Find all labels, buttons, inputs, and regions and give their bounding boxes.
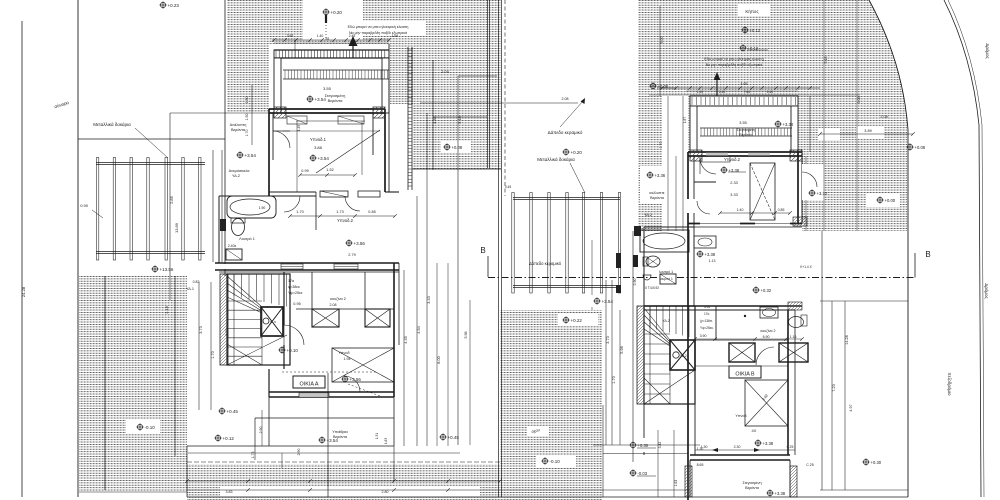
svg-text:καλλυπτε: καλλυπτε [649, 191, 665, 195]
svg-text:3.65: 3.65 [287, 34, 294, 38]
svg-text:+0.30: +0.30 [871, 460, 882, 465]
svg-text:Δάπεδο κεραμικό: Δάπεδο κεραμικό [548, 129, 583, 135]
svg-text:+0.32: +0.32 [761, 288, 772, 293]
svg-text:Εδώ μπορεί να μπει ηλεκτρική κ: Εδώ μπορεί να μπει ηλεκτρική κλειστη [348, 25, 409, 29]
svg-text:+0.20: +0.20 [331, 10, 343, 15]
svg-text:Βεράντα: Βεράντα [328, 98, 344, 103]
svg-text:5.98: 5.98 [620, 346, 624, 353]
svg-text:Υπαίθρια: Υπαίθρια [332, 430, 348, 434]
svg-text:+0.45: +0.45 [227, 409, 239, 414]
svg-text:0.83: 0.83 [193, 280, 200, 284]
svg-text:Δάπεδο κεραμικό: Δάπεδο κεραμικό [529, 261, 562, 266]
svg-text:Βεράντα: Βεράντα [745, 486, 760, 490]
svg-text:C.25: C.25 [806, 463, 813, 467]
svg-text:0.45: 0.45 [505, 185, 511, 189]
svg-text:2.40x: 2.40x [228, 244, 237, 248]
svg-text:1.73: 1.73 [336, 210, 343, 214]
svg-text:+0.12: +0.12 [223, 436, 235, 441]
svg-text:Υψ=25εκ.: Υψ=25εκ. [700, 326, 714, 330]
svg-text:1.70: 1.70 [245, 130, 249, 137]
svg-text:1.40: 1.40 [697, 90, 703, 94]
svg-text:+3.38: +3.38 [775, 491, 786, 496]
svg-text:1.65: 1.65 [767, 90, 773, 94]
svg-text:+3.54: +3.54 [602, 299, 614, 304]
svg-text:3.73: 3.73 [225, 328, 229, 335]
svg-text:Υπνοδ.2: Υπνοδ.2 [724, 157, 741, 162]
svg-text:Χ Τ4.Β.92: Χ Τ4.Β.92 [645, 286, 659, 290]
svg-text:5.98: 5.98 [464, 332, 468, 339]
svg-text:ΥΔ.1: ΥΔ.1 [186, 287, 194, 291]
svg-text:+0.00: +0.00 [885, 198, 896, 203]
svg-text:1.40: 1.40 [737, 208, 744, 212]
svg-text:7.23: 7.23 [832, 384, 836, 391]
svg-text:2.08: 2.08 [330, 303, 337, 307]
svg-text:Υπνοδ: Υπνοδ [735, 414, 746, 418]
svg-text:17α: 17α [704, 312, 710, 316]
svg-text:1.50: 1.50 [245, 114, 249, 121]
svg-text:Να μην παραβρ/Μη παξίδι εξωπρι: Να μην παραβρ/Μη παξίδι εξωπρικά [706, 63, 763, 67]
svg-text:2.80: 2.80 [382, 490, 389, 494]
svg-text:+0.23: +0.23 [168, 3, 180, 8]
svg-text:0.99: 0.99 [301, 169, 308, 173]
svg-text:+0.30: +0.30 [638, 443, 649, 448]
svg-text:Κ+1.4 Χ: Κ+1.4 Χ [800, 265, 812, 269]
svg-text:0.95: 0.95 [293, 302, 300, 306]
svg-text:λουτρό 1: λουτρό 1 [659, 270, 673, 274]
svg-text:+0.22: +0.22 [571, 318, 583, 323]
svg-text:Βεράντα: Βεράντα [650, 196, 665, 200]
svg-text:ΥΔ.2: ΥΔ.2 [644, 213, 652, 217]
svg-text:2.85: 2.85 [169, 195, 174, 204]
svg-text:B: B [480, 246, 485, 255]
svg-text:3.89: 3.89 [864, 129, 871, 133]
svg-text:Κήπος: Κήπος [745, 8, 759, 14]
svg-text:1.13: 1.13 [709, 259, 716, 263]
svg-text:3.33: 3.33 [730, 193, 737, 197]
svg-text:2.79: 2.79 [348, 253, 355, 257]
svg-text:1.63: 1.63 [674, 480, 678, 487]
svg-text:Εδώ μπορεί να μπει ηλεκτρική κ: Εδώ μπορεί να μπει ηλεκτρική κλειστη [704, 57, 763, 61]
svg-text:0.90: 0.90 [80, 203, 89, 208]
svg-text:κουζίνα 2: κουζίνα 2 [330, 297, 346, 301]
svg-text:3.18: 3.18 [164, 305, 169, 314]
svg-text:+3.54: +3.54 [245, 153, 257, 158]
svg-text:4.97: 4.97 [849, 404, 853, 411]
svg-text:φ=38εκ: φ=38εκ [288, 285, 300, 289]
svg-text:+0.12: +0.12 [750, 28, 761, 33]
svg-text:1.70: 1.70 [659, 142, 663, 149]
svg-text:3.18: 3.18 [457, 115, 462, 124]
svg-text:Βεράντα: Βεράντα [231, 128, 246, 132]
svg-text:Υπνοδ.1: Υπνοδ.1 [310, 137, 327, 142]
svg-text:Στεγασμένη: Στεγασμένη [742, 481, 761, 485]
svg-text:(γ=13θπ.: (γ=13θπ. [700, 319, 713, 323]
svg-text:+13.56: +13.56 [160, 267, 174, 272]
svg-text:3.83: 3.83 [226, 490, 233, 494]
svg-text:κουμπό 1: κουμπό 1 [659, 277, 673, 281]
svg-text:Ανεμόσκαλα: Ανεμόσκαλα [229, 169, 251, 173]
svg-text:-0.10: -0.10 [145, 425, 156, 430]
svg-text:1.90: 1.90 [259, 206, 266, 210]
svg-text:1.30: 1.30 [697, 447, 704, 451]
svg-text:5.00: 5.00 [660, 37, 664, 44]
svg-text:2.90: 2.90 [259, 427, 263, 434]
svg-text:1.80: 1.80 [245, 97, 249, 104]
svg-text:24.28: 24.28 [21, 286, 26, 297]
svg-text:4.45: 4.45 [404, 336, 408, 343]
svg-text:ΟΙΚΙΑ Α: ΟΙΚΙΑ Α [300, 382, 319, 388]
svg-text:.65: .65 [325, 37, 330, 41]
svg-text:1.70: 1.70 [211, 351, 215, 358]
svg-text:+0.45: +0.45 [448, 435, 460, 440]
svg-text:Υπνοδ.2: Υπνοδ.2 [337, 218, 354, 223]
svg-text:Υπνοδ: Υπνοδ [338, 351, 349, 355]
svg-text:ΥΔ.2: ΥΔ.2 [232, 174, 240, 178]
svg-text:B: B [925, 250, 930, 259]
svg-text:0.25: 0.25 [787, 445, 794, 449]
svg-text:4.65: 4.65 [741, 82, 748, 86]
svg-text:+0.08: +0.08 [452, 145, 463, 150]
svg-text:8.00: 8.00 [437, 356, 441, 363]
svg-text:2.90: 2.90 [297, 449, 301, 456]
svg-text:2.30: 2.30 [734, 445, 741, 449]
svg-text:+0.20: +0.20 [571, 150, 583, 155]
svg-text:+3.38: +3.38 [763, 441, 774, 446]
svg-text:1.16: 1.16 [790, 335, 797, 339]
svg-text:3.55: 3.55 [323, 86, 332, 91]
svg-text:1.45: 1.45 [297, 125, 301, 131]
svg-text:2.08: 2.08 [562, 97, 569, 101]
svg-text:8.65: 8.65 [697, 463, 704, 467]
svg-text:+3.38: +3.38 [705, 252, 716, 257]
svg-text:4.54: 4.54 [417, 326, 421, 333]
svg-text:1.70: 1.70 [612, 376, 616, 383]
svg-text:17α: 17α [288, 279, 294, 283]
svg-text:-0.10: -0.10 [550, 459, 561, 464]
svg-text:1.70: 1.70 [296, 210, 303, 214]
svg-text:Δρόμος: Δρόμος [984, 283, 990, 299]
svg-text:13.89: 13.89 [174, 222, 179, 233]
svg-text:Μεταλλικά δοκάρια: Μεταλλικά δοκάρια [537, 156, 575, 162]
svg-text:-0.03: -0.03 [638, 471, 648, 476]
svg-text:0.85: 0.85 [368, 210, 375, 214]
svg-text:7.66: 7.66 [744, 90, 750, 94]
svg-text:+3.36: +3.36 [655, 173, 666, 178]
svg-text:2.08: 2.08 [880, 115, 887, 119]
svg-text:2.33: 2.33 [730, 181, 737, 185]
svg-text:Φ-.5: Φ-.5 [270, 320, 276, 324]
svg-text:+3.54: +3.54 [318, 156, 330, 161]
svg-text:3.90: 3.90 [633, 279, 637, 286]
svg-text:+3.32: +3.32 [817, 191, 828, 196]
svg-text:6.90: 6.90 [763, 335, 770, 339]
svg-text:3.43: 3.43 [427, 296, 431, 303]
svg-text:Υψ=25εκ: Υψ=25εκ [288, 291, 303, 295]
svg-text:ΥΔ.2: ΥΔ.2 [662, 319, 670, 323]
svg-text:4.85: 4.85 [432, 115, 437, 124]
svg-text:1.73: 1.73 [251, 452, 255, 459]
svg-text:ΥΔ.2: ΥΔ.2 [680, 354, 687, 358]
svg-text:1.87: 1.87 [683, 117, 687, 123]
svg-text:4X: 4X [752, 428, 757, 433]
svg-text:3.73: 3.73 [606, 336, 610, 343]
svg-text:+0.08: +0.08 [915, 145, 926, 150]
svg-text:3.08: 3.08 [857, 97, 861, 104]
svg-text:2.04: 2.04 [441, 70, 448, 74]
svg-text:ΟΙΚΙΑ Β: ΟΙΚΙΑ Β [735, 372, 755, 378]
svg-text:1.52: 1.52 [326, 168, 333, 172]
svg-text:3.90: 3.90 [700, 334, 707, 338]
svg-text:Στεγασμένη: Στεγασμένη [737, 128, 756, 132]
svg-text:5.18: 5.18 [824, 57, 828, 64]
svg-text:0.85: 0.85 [778, 208, 785, 212]
svg-text:3.73: 3.73 [199, 326, 203, 333]
svg-text:Να μην παραβρ/Μη παξίδι εξωπρι: Να μην παραβρ/Μη παξίδι εξωπρικά [349, 31, 407, 35]
svg-text:1.63: 1.63 [384, 438, 388, 444]
svg-text:+0.10: +0.10 [287, 348, 299, 353]
svg-text:+3.56: +3.56 [354, 241, 366, 246]
svg-text:3.88: 3.88 [314, 145, 323, 150]
svg-text:Βεράντα: Βεράντα [739, 133, 752, 137]
svg-text:πεζοδρόμιο: πεζοδρόμιο [947, 373, 953, 396]
svg-text:Ανάλυπτη: Ανάλυπτη [230, 123, 247, 127]
svg-text:1.94: 1.94 [344, 357, 351, 361]
svg-text:2.45: 2.45 [719, 90, 725, 94]
svg-text:1.31: 1.31 [375, 433, 379, 439]
svg-text:Δρόμος: Δρόμος [985, 43, 991, 59]
svg-text:κουζίνα 2: κουζίνα 2 [761, 329, 776, 333]
svg-text:3.55: 3.55 [739, 121, 746, 125]
svg-text:1.40: 1.40 [317, 34, 324, 38]
svg-text:Λουτρό 1: Λουτρό 1 [239, 237, 255, 241]
svg-text:Μεταλλικά δοκάρια: Μεταλλικά δοκάρια [93, 121, 131, 127]
svg-text:14.28: 14.28 [845, 335, 849, 345]
svg-text:+3.38: +3.38 [783, 122, 794, 127]
svg-text:3.95: 3.95 [704, 305, 710, 309]
svg-text:3.42: 3.42 [658, 442, 662, 449]
